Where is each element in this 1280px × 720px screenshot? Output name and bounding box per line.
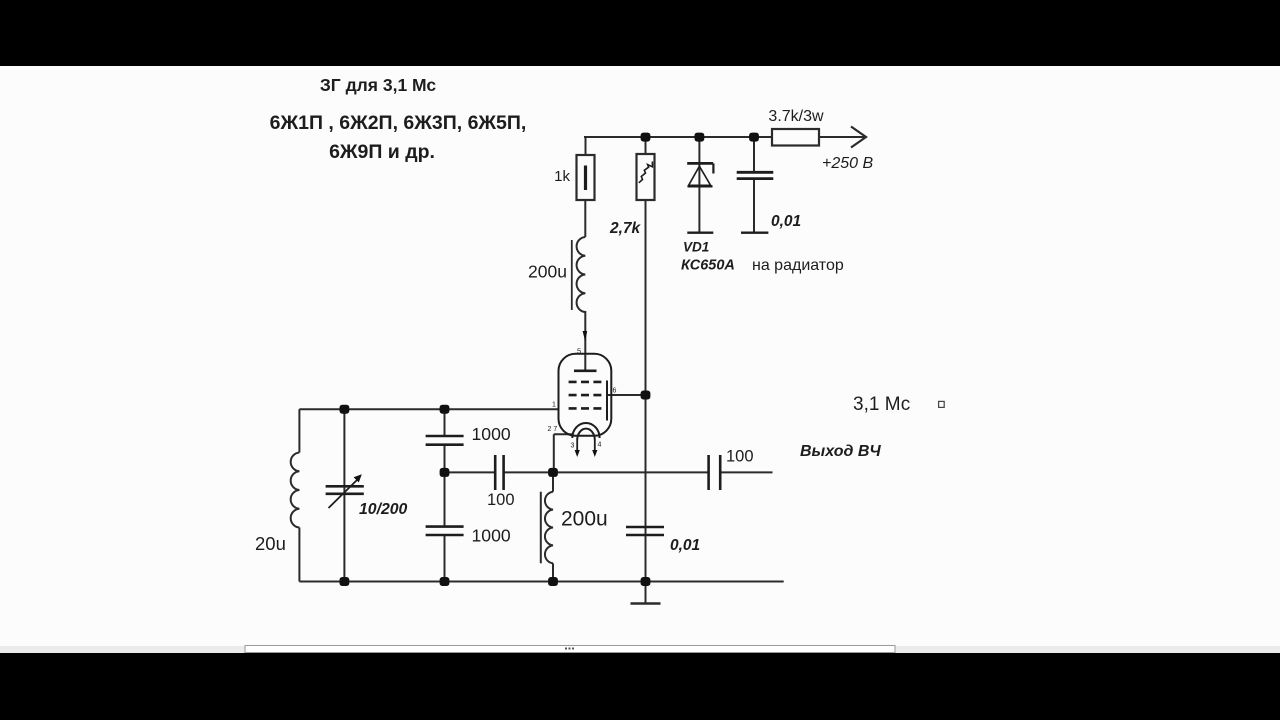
svg-text:1: 1 bbox=[552, 402, 556, 409]
capacitor C 1000 upper bbox=[426, 435, 464, 438]
wire 200u lower top bbox=[552, 472, 554, 491]
junction dot bottom rail mid bbox=[440, 577, 450, 586]
wire 2.7k top bbox=[645, 137, 647, 154]
tick mark on anode wire bbox=[583, 331, 588, 342]
wire 1000 caps column bottom bbox=[444, 535, 446, 582]
wire cathode horizontal bbox=[554, 433, 573, 435]
wire middle row center bbox=[504, 471, 708, 473]
seekbar dots bbox=[565, 648, 574, 650]
inductor L1 200u upper bbox=[577, 237, 586, 312]
wire top rail bbox=[584, 136, 772, 138]
junction dot cathode node bbox=[548, 468, 558, 477]
junction dot bottom rail left bbox=[340, 577, 350, 586]
junction dot tank top left bbox=[340, 405, 350, 414]
svg-text:4: 4 bbox=[598, 442, 602, 449]
svg-text:5: 5 bbox=[577, 347, 581, 356]
wire 1k top bbox=[585, 137, 587, 155]
svg-text:20u: 20u bbox=[255, 533, 286, 554]
wire 200u lower bottom bbox=[552, 563, 554, 581]
wire ground stem bbox=[645, 582, 647, 604]
svg-text:2 7: 2 7 bbox=[548, 426, 558, 433]
wire 1000 caps column middle bbox=[444, 445, 446, 527]
svg-text:КС650А: КС650А bbox=[681, 258, 735, 274]
svg-text:6: 6 bbox=[613, 388, 617, 395]
svg-text:0,01: 0,01 bbox=[771, 213, 801, 230]
svg-text:100: 100 bbox=[487, 491, 515, 509]
wire middle row right bbox=[721, 471, 773, 473]
wire zener vertical bbox=[698, 137, 700, 233]
svg-text:1k: 1k bbox=[554, 168, 570, 185]
capacitor C 1000 lower bbox=[426, 525, 464, 528]
tube side electrode bbox=[606, 381, 608, 421]
svg-text:+250 В: +250 В bbox=[822, 155, 873, 172]
svg-text:10/200: 10/200 bbox=[359, 501, 408, 518]
resistor R 3.7k/3w bbox=[772, 129, 819, 146]
svg-text:ЗГ для 3,1 Мс: ЗГ для 3,1 Мс bbox=[320, 75, 437, 95]
wire cap 0,01 to chassis bar bbox=[753, 179, 755, 233]
svg-text:2,7k: 2,7k bbox=[609, 220, 642, 237]
resistor R 2,7k bbox=[637, 154, 655, 200]
capacitor C 0,01 lower bbox=[626, 526, 664, 529]
inductor L2 200u lower bbox=[545, 492, 553, 564]
wire cathode vertical bbox=[553, 434, 555, 472]
heater lead 4 bbox=[594, 440, 596, 452]
svg-text:VD1: VD1 bbox=[683, 240, 709, 255]
small square marker bbox=[939, 401, 945, 407]
svg-text:1000: 1000 bbox=[472, 424, 511, 444]
svg-text:200u: 200u bbox=[561, 508, 608, 531]
junction dot tank top mid bbox=[440, 405, 450, 414]
wire tube pin6 bbox=[608, 394, 646, 396]
svg-text:6Ж1П , 6Ж2П, 6Ж3П, 6Ж5П,: 6Ж1П , 6Ж2П, 6Ж3П, 6Ж5П, bbox=[270, 112, 527, 134]
junction dot rail-cap bbox=[749, 133, 759, 142]
junction dot bottom rail ground bbox=[641, 577, 651, 586]
svg-text:1000: 1000 bbox=[472, 526, 511, 546]
svg-text:100: 100 bbox=[726, 448, 754, 466]
heater lead 3 bbox=[576, 440, 578, 452]
tube grid dashes row 2 bbox=[569, 394, 602, 397]
junction dot rail-zener bbox=[695, 133, 705, 142]
svg-text:6Ж9П и др.: 6Ж9П и др. bbox=[329, 141, 435, 163]
ground bar bbox=[631, 602, 661, 604]
svg-text:3: 3 bbox=[571, 443, 575, 450]
wire middle row left bbox=[445, 471, 495, 473]
wire coil to tube plate bbox=[584, 311, 586, 371]
variable capacitor C 10/200 bbox=[326, 485, 364, 488]
wire variable cap vertical bbox=[343, 409, 345, 581]
wire 2.7k bottom long vertical bbox=[645, 200, 647, 582]
capacitor C 100 output bbox=[707, 455, 710, 490]
junction dot rail-2.7k bbox=[641, 133, 651, 142]
resistor R 1k bbox=[577, 155, 595, 200]
svg-text:0,01: 0,01 bbox=[670, 537, 700, 554]
capacitor C 0,01 top bbox=[737, 172, 774, 232]
vacuum tube U1 envelope bbox=[559, 354, 612, 436]
arrowhead +250V bbox=[851, 127, 866, 148]
capacitor C 100 feedback bbox=[494, 455, 497, 490]
junction dot anode node bbox=[641, 391, 651, 400]
zener diode VD1 bbox=[687, 163, 713, 232]
tube grid dashes row 3 bbox=[569, 407, 602, 410]
wire bottom rail bbox=[299, 581, 783, 583]
tube cathode outer arch bbox=[572, 423, 599, 438]
wire 1k bottom to coil bbox=[584, 200, 586, 237]
wire 1000 caps column top bbox=[444, 409, 446, 436]
wire tank left vertical bbox=[298, 409, 300, 452]
svg-text:3,1 Мс: 3,1 Мс bbox=[853, 394, 910, 415]
svg-text:на радиатор: на радиатор bbox=[752, 257, 844, 274]
svg-text:3.7k/3w: 3.7k/3w bbox=[768, 108, 824, 125]
inductor L 20u bbox=[291, 453, 300, 528]
tube cathode inner arch (heater) bbox=[577, 429, 595, 440]
wire rail to arrow bbox=[819, 136, 864, 138]
junction dot bottom rail 200u bbox=[548, 577, 558, 586]
svg-text:200u: 200u bbox=[528, 262, 567, 282]
svg-text:Выход ВЧ: Выход ВЧ bbox=[800, 443, 881, 460]
wire cap 0,01 top feed bbox=[753, 137, 755, 172]
wire tank top bbox=[299, 408, 559, 410]
tube grid dashes row 1 bbox=[569, 381, 602, 384]
tube anode plate bbox=[574, 369, 597, 372]
junction dot 1000 caps middle bbox=[440, 468, 450, 477]
